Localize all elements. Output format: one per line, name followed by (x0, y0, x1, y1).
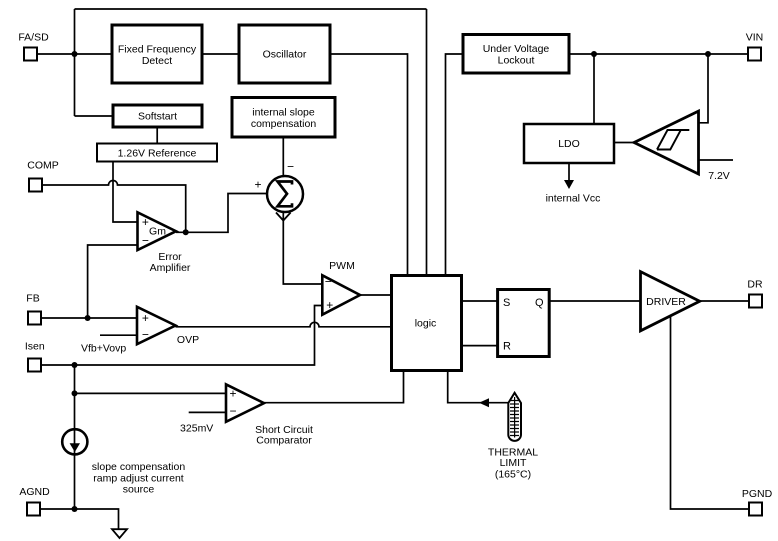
wire driver output to DR pin (700, 300, 749, 302)
block internal slope compensation (232, 98, 335, 138)
junction FA/SD (72, 51, 78, 57)
svg-text:Lockout: Lockout (498, 55, 535, 67)
pin Isen (25, 341, 45, 372)
svg-text:DRIVER: DRIVER (646, 296, 686, 308)
svg-text:Comparator: Comparator (256, 435, 312, 447)
junction VIN rail comparator (705, 51, 711, 57)
svg-text:Gm: Gm (149, 226, 166, 238)
comparator short circuit (180, 384, 313, 446)
svg-text:325mV: 325mV (180, 423, 213, 435)
wire internal slope compensation to summing node (282, 137, 284, 176)
wire short circuit comparator output to logic (264, 372, 404, 403)
arrow internal Vcc (546, 180, 601, 205)
junction AGND (72, 506, 78, 512)
svg-text:−: − (142, 234, 149, 248)
wire Isen branch down (74, 365, 76, 509)
svg-text:Q: Q (535, 297, 544, 309)
wire driver to PGND pin (671, 316, 750, 509)
pin VIN (746, 32, 764, 61)
wire internal Vcc stem (568, 163, 570, 182)
comparator hysteresis 7.2V (634, 111, 730, 182)
current source slope compensation (62, 429, 185, 495)
svg-text:−: − (325, 275, 332, 289)
pin FB (26, 293, 41, 325)
comparator PWM (322, 260, 360, 315)
svg-text:internal slope: internal slope (252, 107, 315, 119)
svg-text:+: + (326, 298, 333, 312)
wire Oscillator output (330, 54, 408, 276)
wire 325mV stub (189, 411, 226, 413)
svg-text:(165°C): (165°C) (495, 469, 531, 481)
wire logic to latch S (462, 300, 498, 302)
op-amp Gm error amplifier (138, 212, 191, 274)
wire FB to Gm minus input (88, 245, 138, 318)
wire top rail drop to logic (426, 9, 428, 276)
wire FA/SD riser vertical (74, 9, 76, 116)
svg-text:Oscillator: Oscillator (263, 49, 307, 61)
ground AGND symbol (112, 529, 127, 538)
wire latch Q to driver (549, 300, 640, 302)
pin DR (747, 279, 763, 308)
wire FFD to Oscillator (202, 53, 239, 55)
svg-text:+: + (229, 387, 236, 401)
block Softstart (113, 105, 202, 127)
junction Isen (72, 362, 78, 368)
svg-text:VIN: VIN (746, 32, 764, 44)
svg-text:FA/SD: FA/SD (18, 32, 49, 44)
summing node sigma (254, 160, 303, 221)
arrow thermal limit into logic (479, 398, 489, 407)
block Oscillator (239, 25, 330, 83)
wire to Softstart (75, 115, 114, 117)
svg-text:−: − (142, 328, 149, 342)
svg-text:FB: FB (26, 293, 39, 305)
svg-text:R: R (503, 340, 511, 352)
svg-text:DR: DR (747, 279, 763, 291)
svg-text:OVP: OVP (177, 334, 199, 346)
svg-text:slope compensation: slope compensation (92, 461, 186, 473)
wire COMP with hop over reference line (43, 181, 186, 233)
svg-text:+: + (254, 177, 261, 191)
comparator OVP (81, 307, 199, 355)
pin PGND (742, 488, 773, 516)
wire OVP output with hop to logic (176, 322, 392, 327)
svg-text:Isen: Isen (25, 341, 45, 353)
svg-text:compensation: compensation (251, 118, 317, 130)
wire Vfb+Vovp stub (100, 334, 137, 336)
junction COMP at Gm output (183, 229, 189, 235)
wire thermal limit to logic (448, 372, 508, 403)
wire AGND pin to ground (41, 509, 119, 529)
svg-text:+: + (142, 311, 149, 325)
svg-text:LDO: LDO (558, 138, 580, 150)
wire summing node output to PWM minus (283, 212, 322, 284)
wire LDO to comparator apex (614, 142, 634, 144)
wire logic to latch R (462, 345, 498, 347)
thermometer thermal limit (488, 393, 538, 481)
svg-text:−: − (229, 404, 236, 418)
wire top rail horizontal (75, 8, 427, 10)
svg-text:LIMIT: LIMIT (500, 457, 527, 469)
svg-text:7.2V: 7.2V (708, 170, 730, 182)
wire Gm output to summing node (176, 194, 267, 233)
wire VIN rail to hysteresis comparator input (699, 54, 709, 123)
wire UVLO left to logic (446, 54, 464, 276)
svg-text:Fixed Frequency: Fixed Frequency (118, 44, 197, 56)
wire FB pin to OVP plus (42, 317, 137, 319)
wire to short circuit comparator plus (75, 392, 227, 394)
svg-text:Amplifier: Amplifier (150, 262, 191, 274)
block Under Voltage Lockout (463, 35, 569, 74)
svg-text:−: − (287, 160, 294, 174)
svg-text:PGND: PGND (742, 488, 773, 500)
wire PWM output to logic (360, 294, 392, 296)
svg-text:COMP: COMP (27, 160, 59, 172)
junction VIN rail LDO (591, 51, 597, 57)
junction FB (85, 315, 91, 321)
svg-text:Under Voltage: Under Voltage (483, 43, 550, 55)
block LDO (524, 124, 614, 163)
wire VIN rail to LDO (593, 54, 595, 124)
block 1.26V Reference (97, 144, 217, 162)
buffer DRIVER (641, 272, 700, 331)
svg-text:AGND: AGND (19, 486, 50, 498)
svg-text:Softstart: Softstart (138, 111, 177, 123)
svg-text:Vfb+Vovp: Vfb+Vovp (81, 343, 126, 355)
svg-text:internal Vcc: internal Vcc (546, 193, 601, 205)
svg-text:source: source (123, 484, 155, 496)
wire 7.2V output stub (699, 159, 734, 161)
latch SR (498, 290, 550, 357)
svg-text:+: + (142, 215, 149, 229)
block Fixed Frequency Detect (112, 25, 202, 83)
wire Reference to Gm plus input (113, 162, 138, 223)
wire Softstart to 1.26V Reference (156, 127, 158, 144)
pin AGND (19, 486, 50, 516)
svg-text:S: S (503, 297, 510, 309)
svg-text:PWM: PWM (329, 260, 355, 272)
svg-text:Detect: Detect (142, 55, 172, 67)
svg-text:logic: logic (415, 318, 437, 330)
pin FA/SD (18, 32, 49, 61)
junction short circuit branch (72, 390, 78, 396)
block logic (392, 276, 462, 371)
pin COMP (27, 160, 59, 192)
wire Isen to PWM plus input (42, 306, 322, 366)
svg-text:1.26V Reference: 1.26V Reference (118, 148, 197, 160)
wire FA/SD pin to Fixed Frequency Detect (38, 53, 112, 55)
wire UVLO to VIN rail (569, 53, 748, 55)
